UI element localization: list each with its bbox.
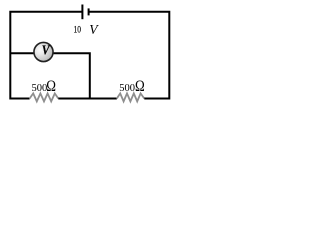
svg-text:Ω: Ω — [46, 78, 56, 96]
wire: middle branch with voltmeter, to vertical branch — [10, 53, 90, 98]
voltmeter M1 body — [34, 42, 53, 61]
battery B1: long plate — [81, 5, 83, 20]
wire: top-left segment + left side + bottom-left stub — [10, 12, 82, 99]
svg-text:10: 10 — [74, 24, 82, 35]
svg-text:500: 500 — [32, 83, 48, 94]
svg-text:V: V — [89, 22, 99, 37]
wire: bottom middle segment — [58, 98, 117, 100]
battery B1: short plate — [88, 8, 90, 15]
svg-text:Ω: Ω — [135, 78, 145, 96]
wire: bottom-right + right side + top-right segment — [89, 12, 170, 99]
resistor R1 (500 ohm, left) zigzag — [30, 93, 59, 101]
svg-text:500: 500 — [119, 83, 135, 94]
resistor R2 (500 ohm, right) zigzag — [117, 93, 145, 101]
